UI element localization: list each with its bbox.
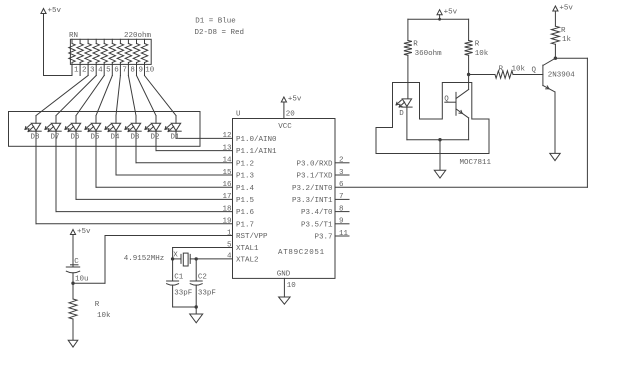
svg-text:P1.1/AIN1: P1.1/AIN1 [236,148,277,156]
svg-text:8: 8 [130,67,135,75]
svg-text:P1.5: P1.5 [236,197,255,205]
svg-text:16: 16 [222,181,232,189]
svg-text:12: 12 [222,132,231,140]
svg-text:19: 19 [222,218,231,226]
svg-text:P1.3: P1.3 [236,173,255,181]
svg-text:P1.6: P1.6 [236,209,255,217]
svg-text:D: D [399,110,404,118]
svg-text:C: C [74,258,79,266]
svg-text:8: 8 [339,205,344,213]
svg-text:C2: C2 [198,274,207,282]
svg-text:9: 9 [339,218,344,226]
svg-text:+5v: +5v [444,8,458,16]
svg-text:10: 10 [287,282,297,290]
svg-text:+5v: +5v [288,96,302,104]
svg-text:Q: Q [444,96,449,104]
svg-text:10k: 10k [97,312,111,320]
svg-text:R: R [475,41,480,49]
svg-text:+5v: +5v [559,5,573,13]
svg-text:R: R [95,301,100,309]
svg-text:4: 4 [227,253,232,261]
svg-text:10k: 10k [512,66,526,74]
svg-text:5: 5 [227,241,232,249]
svg-text:2: 2 [82,67,87,75]
svg-text:4.9152MHz: 4.9152MHz [124,255,165,263]
svg-text:14: 14 [222,157,232,165]
svg-text:33pF: 33pF [198,290,216,298]
svg-text:D3: D3 [130,134,140,142]
svg-text:P1.2: P1.2 [236,160,254,168]
svg-text:220ohm: 220ohm [124,32,152,40]
svg-text:P3.0/RXD: P3.0/RXD [296,160,333,168]
svg-text:18: 18 [222,205,231,213]
svg-text:D1: D1 [170,134,180,142]
svg-text:D5: D5 [90,134,100,142]
svg-text:R: R [413,41,418,49]
svg-text:P1.0/AIN0: P1.0/AIN0 [236,136,277,144]
svg-text:10: 10 [145,67,155,75]
svg-text:11: 11 [339,230,349,238]
svg-text:XTAL1: XTAL1 [236,245,259,253]
svg-text:D2-D8 = Red: D2-D8 = Red [195,29,245,37]
svg-text:P1.7: P1.7 [236,221,254,229]
svg-text:X: X [173,252,178,260]
svg-text:D4: D4 [110,134,120,142]
svg-text:P3.5/T1: P3.5/T1 [301,221,333,229]
svg-text:R: R [499,66,504,74]
svg-text:6: 6 [339,181,344,189]
svg-text:D6: D6 [70,134,80,142]
svg-text:360ohm: 360ohm [415,50,443,58]
svg-text:D8: D8 [30,134,39,142]
svg-text:10k: 10k [475,50,489,58]
svg-text:5: 5 [106,67,111,75]
svg-text:P3.4/T0: P3.4/T0 [301,209,333,217]
svg-text:AT89C2051: AT89C2051 [278,249,325,257]
svg-text:7: 7 [339,193,344,201]
svg-text:P3.2/INT0: P3.2/INT0 [292,185,333,193]
svg-text:20: 20 [286,110,296,118]
svg-text:17: 17 [222,193,231,201]
svg-text:VCC: VCC [278,123,292,131]
svg-text:RST/VPP: RST/VPP [236,233,268,241]
svg-text:7: 7 [122,67,127,75]
svg-text:4: 4 [98,67,103,75]
svg-text:MOC7811: MOC7811 [460,159,492,167]
svg-text:+5v: +5v [77,228,91,236]
svg-text:2: 2 [339,157,344,165]
svg-text:33pF: 33pF [174,290,192,298]
svg-text:XTAL2: XTAL2 [236,257,259,265]
svg-text:1: 1 [74,67,79,75]
svg-text:P3.7: P3.7 [314,234,332,242]
svg-text:Q: Q [532,67,537,75]
svg-text:R: R [561,27,566,35]
svg-text:13: 13 [222,144,232,152]
svg-text:P1.4: P1.4 [236,185,255,193]
svg-text:6: 6 [114,67,119,75]
svg-text:1: 1 [227,229,232,237]
svg-text:3: 3 [90,67,95,75]
svg-text:RN: RN [69,32,78,40]
svg-text:P3.1/TXD: P3.1/TXD [296,173,333,181]
svg-text:+5v: +5v [48,7,62,15]
svg-text:10u: 10u [75,276,89,284]
svg-text:GND: GND [277,271,291,279]
svg-text:U: U [236,111,241,119]
svg-text:P3.3/INT1: P3.3/INT1 [292,197,333,205]
svg-text:1k: 1k [562,36,572,44]
svg-text:C1: C1 [174,274,184,282]
svg-text:9: 9 [138,67,143,75]
svg-text:2N3904: 2N3904 [548,72,576,80]
svg-text:D1 = Blue: D1 = Blue [195,17,236,25]
svg-text:3: 3 [339,169,344,177]
svg-text:D2: D2 [150,134,159,142]
svg-text:15: 15 [222,169,232,177]
svg-text:D7: D7 [50,134,59,142]
